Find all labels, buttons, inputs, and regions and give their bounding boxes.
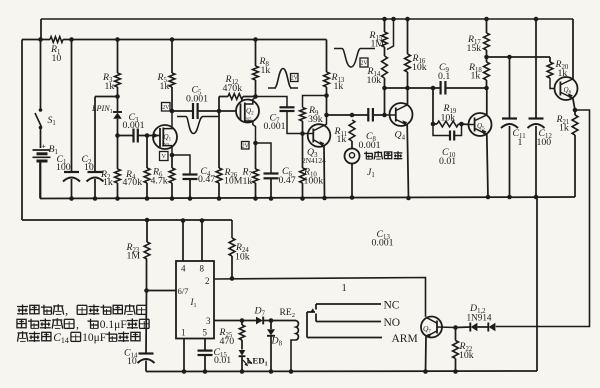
svg-text:10: 10 — [84, 162, 94, 173]
svg-text:C14: C14 — [53, 332, 69, 345]
svg-text:0.001: 0.001 — [372, 238, 394, 249]
svg-text:1k: 1k — [334, 81, 344, 92]
svg-text:0.47: 0.47 — [279, 175, 296, 186]
svg-text:2: 2 — [205, 276, 210, 286]
svg-text:1: 1 — [181, 328, 186, 338]
svg-text:0.001: 0.001 — [359, 140, 381, 151]
svg-text:0.01: 0.01 — [439, 156, 456, 167]
svg-text:0.001: 0.001 — [264, 121, 286, 132]
svg-text:3: 3 — [206, 316, 211, 326]
svg-text:2N4124: 2N4124 — [302, 156, 326, 165]
svg-text:NO: NO — [384, 317, 401, 329]
svg-text:10k: 10k — [459, 350, 474, 361]
svg-text:2N5: 2N5 — [244, 117, 253, 122]
svg-text:6/7: 6/7 — [178, 286, 190, 296]
svg-text:1k: 1k — [471, 71, 481, 82]
svg-text:I1: I1 — [190, 297, 197, 309]
svg-text:4.7k: 4.7k — [151, 176, 168, 187]
svg-text:1N914: 1N914 — [467, 313, 492, 323]
svg-text:Q4: Q4 — [395, 130, 406, 142]
svg-text:0.1μF: 0.1μF — [100, 319, 127, 331]
svg-text:2V: 2V — [162, 105, 170, 111]
svg-text:1k: 1k — [160, 81, 170, 92]
svg-text:S1: S1 — [48, 115, 56, 127]
svg-text:1k: 1k — [105, 81, 115, 92]
svg-text:Q2: Q2 — [246, 107, 254, 117]
svg-text:1k: 1k — [559, 123, 569, 134]
svg-text:V: V — [162, 154, 167, 160]
svg-text:1k: 1k — [103, 177, 113, 188]
svg-text:10k: 10k — [367, 75, 382, 86]
svg-text:2V: 2V — [291, 76, 299, 82]
svg-text:2N5: 2N5 — [162, 142, 171, 147]
svg-text:,: , — [76, 318, 79, 332]
svg-text:0.47: 0.47 — [198, 174, 215, 185]
svg-text:NC: NC — [384, 300, 400, 312]
svg-text:1k: 1k — [243, 176, 253, 187]
svg-text:D7: D7 — [254, 306, 266, 318]
svg-text:1: 1 — [518, 137, 523, 148]
svg-text:4: 4 — [181, 264, 186, 274]
svg-text:1k: 1k — [261, 65, 271, 76]
svg-text:1k: 1k — [337, 134, 347, 145]
svg-text:10M: 10M — [224, 176, 243, 187]
svg-text:10: 10 — [127, 356, 137, 367]
svg-text:10k: 10k — [412, 62, 427, 73]
svg-text:5: 5 — [203, 328, 208, 338]
svg-text:1M: 1M — [127, 251, 141, 262]
svg-text:0.1: 0.1 — [438, 71, 450, 82]
svg-text:15k: 15k — [467, 43, 482, 54]
svg-text:470k: 470k — [123, 177, 143, 188]
svg-text:10k: 10k — [235, 252, 250, 263]
svg-text:100k: 100k — [304, 176, 324, 187]
svg-text:470: 470 — [220, 336, 235, 347]
svg-text:RE2: RE2 — [280, 307, 296, 319]
svg-text:+: + — [42, 142, 46, 151]
svg-text:,: , — [65, 304, 68, 318]
svg-text:LED1: LED1 — [247, 356, 268, 368]
svg-text:39k: 39k — [308, 114, 323, 125]
svg-text:10μF: 10μF — [82, 332, 106, 344]
svg-text:10: 10 — [52, 53, 62, 64]
svg-text:Q7: Q7 — [423, 324, 431, 335]
svg-text:J1: J1 — [367, 167, 375, 179]
svg-text:8: 8 — [200, 264, 205, 274]
svg-text:0.01: 0.01 — [214, 355, 231, 366]
svg-text:1M: 1M — [371, 39, 385, 50]
svg-text:0.001: 0.001 — [123, 120, 145, 131]
svg-text:100: 100 — [537, 137, 552, 148]
svg-text:470k: 470k — [223, 83, 243, 94]
svg-text:2V: 2V — [242, 143, 250, 149]
svg-text:D8: D8 — [271, 336, 283, 348]
svg-text:0.001: 0.001 — [186, 94, 208, 105]
svg-text:10k: 10k — [441, 113, 456, 124]
svg-text:1: 1 — [342, 283, 347, 294]
svg-text:100: 100 — [56, 162, 71, 173]
svg-text:ARM: ARM — [392, 333, 418, 345]
